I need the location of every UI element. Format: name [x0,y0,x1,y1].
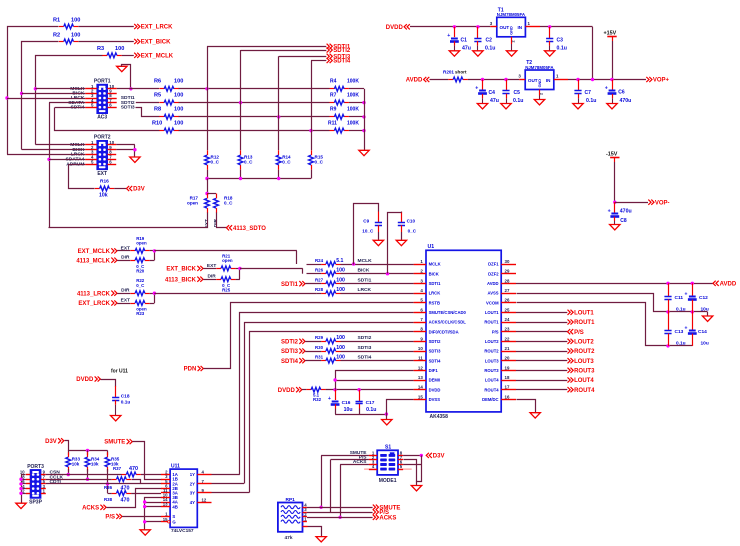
svg-text:EXT_BICK: EXT_BICK [141,40,171,46]
svg-text:SDTI4: SDTI4 [429,358,442,363]
svg-text:AC3: AC3 [97,115,107,121]
svg-text:EXT_LRCK: EXT_LRCK [141,25,173,31]
net flag EXT_MCLK (mid) [78,248,117,255]
svg-text:open: open [222,258,233,263]
ground for pulldown network [359,150,369,155]
svg-text:short: short [455,69,467,74]
wire EXT_MCLK net (left bus + R3 row) [34,56,134,145]
svg-text:SDTI2: SDTI2 [429,339,442,344]
svg-text:0_C: 0_C [136,283,145,288]
svg-text:R20: R20 [136,268,145,273]
svg-text:for U11: for U11 [111,369,128,375]
svg-text:R201: R201 [443,69,454,74]
wire S1 SMUTE left [319,456,369,509]
svg-text:47u: 47u [490,98,499,104]
svg-text:470u: 470u [620,209,632,215]
label EXT rotated [204,219,210,228]
svg-text:10: 10 [418,346,423,351]
capacitor C2 [474,27,495,52]
svg-text:AK4358: AK4358 [430,414,449,420]
net flag LOUT1 [568,310,595,317]
svg-text:MODE1: MODE1 [379,478,397,484]
svg-text:13: 13 [418,375,423,380]
connector PORT1 (AC3) [94,79,111,121]
wire BICK row [307,268,414,276]
PORT3 net labels [50,470,64,485]
svg-text:23: 23 [505,327,510,332]
net flag 4113_BICK [165,277,203,284]
svg-text:AVDD: AVDD [406,78,423,84]
svg-text:R10: R10 [152,120,162,126]
svg-text:SDTI1: SDTI1 [358,278,372,284]
PORT2 right pin stubs [108,145,117,165]
capacitor C8 [608,202,632,224]
svg-text:16: 16 [505,394,510,399]
wire SDTI2 row [136,101,366,104]
svg-text:C8: C8 [620,218,627,224]
svg-text:R5: R5 [154,92,161,98]
resistor R28 (100) [315,287,345,296]
wire 4113_LRCK to R22 [117,288,130,294]
svg-text:D3V: D3V [433,454,445,460]
svg-text:ROUT4: ROUT4 [574,388,595,394]
svg-text:BICK: BICK [429,271,439,276]
capacitor C9 (10_C) [354,204,383,265]
svg-text:open: open [187,201,198,206]
svg-text:13: 13 [163,502,168,507]
svg-text:0.1u: 0.1u [676,340,686,346]
wire P/S to U11 S [122,516,161,518]
svg-text:3Y: 3Y [190,491,195,496]
svg-text:2: 2 [539,93,543,95]
wire U11 3B/4A/4B/G ground rail [143,498,162,530]
ground S1 [411,486,421,491]
svg-text:R23: R23 [136,311,145,316]
capacitor C7 [574,80,596,105]
net flag SDTI2 [327,47,351,54]
wire MCLK row [307,258,414,266]
resistor R9 [330,107,360,120]
svg-text:LOUT2: LOUT2 [574,339,594,345]
svg-text:4Y: 4Y [190,500,195,505]
resistor R37 (470) [113,466,141,477]
net flag AVDD (right) [713,281,737,288]
svg-text:0.1u: 0.1u [676,306,686,312]
svg-text:25: 25 [505,307,510,312]
net flag DVDD (top) [386,24,410,31]
capacitor C13 [664,312,685,346]
svg-text:0.1u: 0.1u [586,98,596,104]
svg-text:100: 100 [336,287,345,293]
resistor R2 [53,32,80,44]
resistor R10 [152,120,183,133]
wire 4113_MCLK to R20 [117,255,130,261]
resistor R30 (100) [315,345,345,354]
PORT2 left pin stubs [85,145,97,165]
wire EXT_LRCK to R23 [117,297,130,303]
svg-text:100: 100 [336,355,345,361]
svg-text:DEM/DC: DEM/DC [482,397,499,402]
svg-text:ROUT1: ROUT1 [574,320,595,326]
svg-text:R31: R31 [315,355,324,360]
svg-text:0_C: 0_C [224,201,233,206]
svg-text:C3: C3 [557,38,564,44]
capacitor C6 [605,80,632,105]
svg-text:DIR: DIR [213,218,219,227]
resistor R26 (100) [315,268,345,277]
ground T1 [506,51,516,56]
svg-text:15: 15 [418,394,423,399]
ground C1 [449,51,459,56]
svg-text:DIR: DIR [121,288,130,294]
wire SDTI2 row [305,335,413,341]
resistor R12 [205,150,220,169]
resistor R15 [309,150,324,169]
svg-text:47k: 47k [285,535,293,541]
wire CDTI row [46,483,140,485]
resistor R5 [154,92,183,105]
capacitor C17 [356,390,377,414]
resistor R13 [238,150,253,169]
wire AVSS row [517,294,708,317]
wire U1 pin8 to U11 3Y [250,332,414,493]
wire DVDD row [302,388,414,391]
svg-text:LOUT3: LOUT3 [574,359,594,365]
wire EXT_BICK to R21 [203,263,216,269]
svg-text:EXT: EXT [121,297,130,303]
power symbol -15V [606,151,620,162]
wire R18 bottom to SDTO flag [217,213,227,228]
svg-text:4B: 4B [172,504,178,509]
svg-text:GND: GND [510,26,514,35]
power symbol +15V [604,30,617,41]
svg-text:R16: R16 [100,179,109,185]
svg-text:100: 100 [336,335,345,341]
resistor R35 (10k) [105,452,120,471]
wire U1 pin16 to ground [517,400,536,413]
svg-text:C17: C17 [366,400,375,406]
svg-text:LOUT1: LOUT1 [485,310,499,315]
svg-text:AVDD: AVDD [720,281,737,287]
wire P/S flag row [307,512,373,514]
wire U1 pin7 to U11 2Y [245,323,414,484]
svg-text:OUT: OUT [500,25,510,30]
wire R36 jog to 2A [132,480,162,484]
capacitor C3 [546,27,567,52]
svg-text:470: 470 [121,497,130,503]
svg-text:SDTI4: SDTI4 [281,359,299,365]
svg-text:-15V: -15V [606,151,618,157]
svg-text:SDTI3: SDTI3 [358,345,372,351]
svg-text:22: 22 [505,336,510,341]
svg-text:100: 100 [174,120,183,126]
switch S1 MODE1 [364,445,412,484]
svg-text:12: 12 [418,365,423,370]
svg-text:19: 19 [505,365,510,370]
svg-text:P/S: P/S [574,330,584,336]
svg-text:LOUT3: LOUT3 [485,358,499,363]
resistor R23 (open) [130,301,149,317]
svg-text:C13: C13 [675,329,684,335]
svg-text:74LVC157: 74LVC157 [171,528,194,534]
PORT2 left pin labels [66,142,85,167]
wire D3V rail [65,441,108,456]
wire U11 3Y up [212,492,250,494]
net flag 4113_MCLK [76,258,117,265]
net flag ACKS (left) [82,505,106,512]
wire U11 1Y up [212,474,240,476]
svg-text:AVSS: AVSS [488,291,499,296]
resistor R7 [330,92,360,105]
svg-text:0_C: 0_C [211,160,220,165]
capacitor C11 [664,283,685,312]
PORT3 left pin stubs [26,475,30,494]
net flag SDTI3 (mid) [281,348,305,355]
connector PORT3 (SP3P) [27,464,44,506]
svg-text:SDTI1: SDTI1 [281,282,299,288]
wire DVSS rail [335,400,413,420]
svg-text:10u: 10u [344,407,353,413]
wire SDTI3 flag line [279,56,327,150]
svg-text:SDTI1: SDTI1 [429,281,442,286]
svg-text:SDTI2: SDTI2 [358,335,372,341]
svg-text:470: 470 [129,466,138,472]
svg-text:5.1: 5.1 [336,258,343,264]
svg-text:15: 15 [163,517,168,522]
resistor R3 [97,46,124,58]
svg-text:SDTI3: SDTI3 [121,104,135,110]
svg-text:RSTB: RSTB [429,300,440,305]
svg-text:S: S [172,514,175,519]
wire DVDD to C18 [101,380,116,387]
capacitor C16 [328,390,353,414]
wire ACKS to U11 2B [107,489,162,508]
resistor R33 (10k) [66,452,81,471]
svg-text:R25: R25 [222,287,231,292]
net flag VOP- [648,200,669,207]
wire U1 pin12 pin13 tie [333,371,413,390]
svg-text:R27: R27 [315,278,324,283]
PORT1 right pin numbers [109,84,114,107]
svg-text:R32: R32 [313,397,322,402]
svg-text:DVDD: DVDD [76,377,94,383]
wire PDN to U1 RSTB [204,303,414,369]
PORT2 right pin numbers [109,140,114,164]
wire DVDD rail [410,25,490,28]
svg-text:PORT3: PORT3 [27,464,44,470]
wire PORT2 pin10/pin9 to ground [116,145,136,157]
svg-text:S1: S1 [385,445,391,451]
svg-text:U11: U11 [171,463,180,469]
resistor R34 (10k) [85,452,100,471]
svg-text:DIR: DIR [207,274,216,280]
wire RP1 common to ground [308,527,322,537]
svg-text:+: + [608,208,611,214]
svg-text:0_C: 0_C [408,228,417,233]
net flag 4113_LRCK [77,291,117,298]
ground T2 [534,100,544,105]
svg-text:DVDD: DVDD [429,387,441,392]
svg-text:SDTI4: SDTI4 [333,59,351,65]
wire EXT_BICK net (left bus + R2 row) [20,42,134,150]
svg-text:4113_SDTO: 4113_SDTO [233,226,266,232]
svg-text:17: 17 [505,385,510,390]
ground C3 [545,51,555,56]
wire U11 2Y up [212,483,245,485]
svg-text:100K: 100K [347,92,359,98]
ground C2 [473,51,483,56]
PORT1 left pin numbers [91,84,94,107]
net flag LOUT2 [568,339,595,346]
svg-text:R9: R9 [330,107,337,113]
IC U1 AK4358 [414,244,516,420]
net flag SDTI3 [327,54,351,61]
svg-text:+: + [475,86,478,92]
wire SMUTE flag row [307,507,373,509]
svg-text:R28: R28 [315,287,324,292]
svg-text:D3V: D3V [133,187,145,193]
label for U11 [111,369,128,375]
svg-text:RP1: RP1 [286,497,296,503]
svg-text:D3V: D3V [45,439,57,445]
resistor R20 (0_C) [130,258,149,274]
svg-text:0_C: 0_C [282,160,291,165]
svg-text:DIF0/CDTI/SDA: DIF0/CDTI/SDA [429,329,459,334]
svg-text:100: 100 [174,107,183,113]
svg-text:C5: C5 [514,90,521,96]
ground U1 pin16 [530,413,540,418]
svg-text:GND: GND [538,79,542,88]
svg-text:24: 24 [505,317,510,322]
net flag LOUT4 [568,377,595,384]
svg-text:P/S: P/S [105,515,115,521]
wire U1 LOUT2 row [516,341,567,343]
wire EXT_MCLK to R19 [117,245,130,251]
resistor R16 [95,179,114,199]
svg-text:+: + [685,291,688,297]
regulator T1 (NJM78M05FA) [490,8,540,51]
net flag SMUTE (bottom) [373,505,401,512]
svg-text:NJM78M05FA: NJM78M05FA [497,12,526,17]
wire S1 ACKS left [338,465,369,520]
svg-text:MCLK: MCLK [429,262,441,267]
net flag SMUTE (top of U11) [104,439,132,446]
svg-text:DIF1: DIF1 [429,368,439,373]
PORT3 right pin stubs [41,475,46,494]
svg-text:R8: R8 [154,107,161,113]
svg-text:C6: C6 [618,90,625,96]
svg-text:27: 27 [505,288,510,293]
PORT2 left pin numbers [91,140,94,164]
svg-text:VOP-: VOP- [655,200,670,206]
resistor R4 [330,79,360,92]
ground C4 [477,104,487,109]
svg-text:LOUT1: LOUT1 [574,310,594,316]
svg-text:10_C: 10_C [362,228,374,233]
svg-text:AVDD: AVDD [487,281,499,286]
svg-text:SMUTE/CSN/CAD0: SMUTE/CSN/CAD0 [429,310,467,315]
svg-text:R36: R36 [104,485,113,490]
svg-text:C18: C18 [121,394,130,400]
svg-text:100: 100 [115,46,124,52]
svg-text:12: 12 [202,497,207,502]
svg-text:21: 21 [505,346,510,351]
svg-text:29: 29 [505,269,510,274]
svg-text:SDTI4: SDTI4 [358,355,372,361]
net flag SDTI4 (mid) [281,358,305,365]
resistor R18 (0_C) [214,194,234,213]
wire +15V to VOP+ rail [612,41,614,80]
svg-text:BICK: BICK [358,268,370,274]
resistor R21 (open) [216,253,235,270]
svg-text:ROUT2: ROUT2 [484,349,499,354]
wire R34 to CCLK row [86,469,89,481]
wire S1 pins to ground [403,455,421,485]
ground C7 [573,104,583,109]
svg-text:LRCK: LRCK [429,291,441,296]
label DIR rotated [213,218,219,227]
ground RP1 [316,537,326,542]
net flag AVDD (top) [406,77,430,84]
net flag SDTI4 [327,58,351,65]
capacitor C10 (0_C) [388,212,417,274]
wire SDTI4 flag line [311,61,326,151]
svg-text:DZF2: DZF2 [488,271,499,276]
wire R12-R15 bottom rail [205,170,311,196]
net flag DVDD (U11) [76,376,100,383]
svg-text:18: 18 [505,375,510,380]
svg-text:100K: 100K [347,120,359,126]
svg-text:100K: 100K [347,107,359,113]
PORT3 left pin numbers [20,470,25,494]
svg-text:LOUT2: LOUT2 [485,339,499,344]
svg-text:NJM78M05FA: NJM78M05FA [525,65,554,70]
svg-text:R11: R11 [328,120,337,126]
svg-text:EXT_BICK: EXT_BICK [166,267,196,273]
wire VCOM row [517,303,693,348]
svg-text:C4: C4 [489,90,496,96]
net flag ACKS (bottom) [373,515,397,522]
svg-text:+: + [328,396,331,402]
svg-text:2: 2 [512,40,516,42]
wire U1 pin6 to U11 1Y [240,313,414,475]
resistor R17 (open) [187,194,209,213]
svg-text:28: 28 [505,278,510,283]
svg-text:ROUT3: ROUT3 [484,368,499,373]
net flag EXT_BICK [134,39,171,46]
svg-text:100K: 100K [347,79,359,85]
wire R38 row to 3A [131,493,161,495]
svg-text:DVSS: DVSS [429,397,441,402]
wire EXT_LRCK net (left bus + R1 row) [5,27,134,155]
wire AVDD row [516,282,713,285]
svg-text:2Y: 2Y [190,482,195,487]
svg-text:100: 100 [174,79,183,85]
svg-text:EXT: EXT [97,171,107,177]
svg-text:EXT_MCLK: EXT_MCLK [78,249,111,255]
svg-text:R26: R26 [315,268,324,273]
connector PORT2 (EXT) [94,135,111,177]
S1 left net labels [350,450,368,465]
net flag EXT_LRCK [134,24,173,31]
net flag EXT_LRCK (mid) [78,300,117,307]
svg-text:SMUTE: SMUTE [104,440,125,446]
svg-text:10k: 10k [72,461,80,466]
resistor R24 (5.1) [315,258,344,267]
svg-text:IN: IN [546,78,551,83]
svg-text:30: 30 [505,259,510,264]
svg-text:SP3P: SP3P [29,499,42,505]
